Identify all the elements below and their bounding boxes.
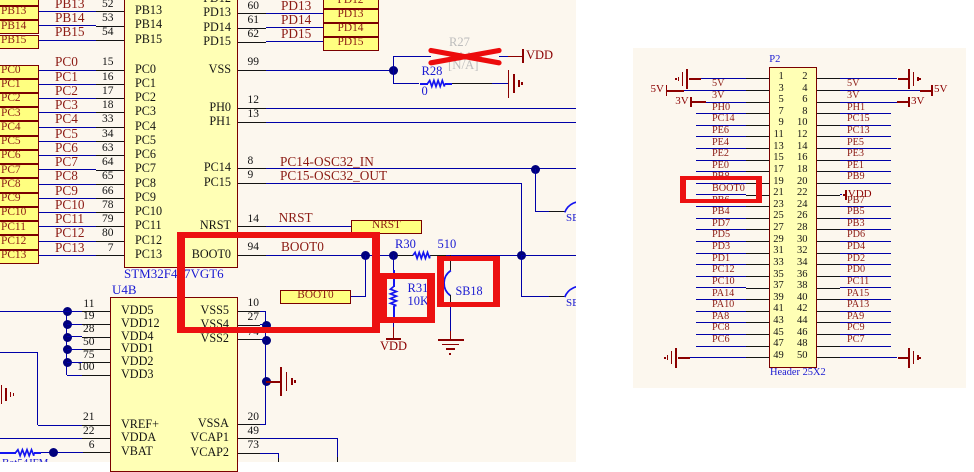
pin stub PH0 — [238, 108, 266, 109]
pin stub PD14 — [238, 28, 266, 29]
P2 pin numbers 19 20 — [664, 177, 784, 188]
U4B pin VDD12 (19) — [121, 317, 160, 329]
wire PH0 — [266, 108, 577, 109]
P2 left wire row 35 — [696, 276, 747, 277]
net label PE4 — [712, 138, 729, 148]
P2 5V left wire — [684, 90, 746, 91]
solder bridge SB17 arc (clipped) — [0, 0, 576, 462]
wire VDDA feed — [0, 438, 82, 439]
net label NRST — [279, 211, 313, 224]
P2 pin 24 stub — [817, 206, 840, 207]
P2 right wire row 48 — [840, 346, 891, 347]
net label PC8 — [712, 323, 730, 333]
P2 pin numbers 13 14 — [664, 142, 784, 153]
P2 pin numbers 33 34 — [664, 258, 784, 269]
port NRST — [351, 220, 423, 234]
net label PD15 — [281, 27, 311, 40]
red highlight box BOOT0 (header) — [680, 176, 762, 203]
net label BOOT0 — [281, 240, 324, 253]
P2 5V right wire — [840, 90, 920, 91]
wire PD15 — [266, 41, 323, 42]
P2 pin 46 stub — [817, 334, 840, 335]
P2 pin 20 stub — [817, 183, 840, 184]
P2 pin 43 stub — [746, 322, 769, 323]
ground GND below SB18 — [438, 339, 465, 341]
pin stub PD15 — [238, 42, 266, 43]
P2 pin 21 stub — [746, 195, 769, 196]
port PC6 — [0, 150, 39, 164]
P2 right wire row 14 — [840, 148, 891, 149]
P2 left wire row 29 — [696, 241, 747, 242]
P2 pin 17 stub — [746, 171, 769, 172]
pin PC7 (64) left wire+label — [39, 169, 97, 170]
net label PC14-OSC32_IN — [280, 155, 374, 168]
power earth left top — [686, 69, 688, 89]
IC right pin name PD14 — [111, 21, 231, 33]
port PC13 — [0, 250, 39, 264]
pin stub PH1 — [238, 122, 266, 123]
net label PA9 — [847, 312, 864, 322]
pin PB15 (54) left wire+label — [39, 40, 97, 41]
wire to SB17 — [522, 296, 549, 297]
P2 pin 39 stub — [746, 299, 769, 300]
P2 pin 15 stub — [746, 160, 769, 161]
P2 pin 34 stub — [817, 264, 840, 265]
port PD14 — [323, 23, 380, 37]
IC right pin name BOOT0 — [111, 248, 231, 260]
port PC12 — [0, 235, 39, 249]
junction VDD bus — [63, 345, 72, 354]
net label PD7 — [712, 219, 730, 229]
VSS net corner/vertical — [260, 311, 266, 312]
port PC1 — [0, 79, 39, 93]
resistor R28 leads — [420, 83, 428, 85]
P2 pin 10 stub — [817, 125, 840, 126]
P2 right wire row 36 — [840, 276, 891, 277]
P2 pin 27 stub — [746, 229, 769, 230]
port PD12 — [323, 0, 380, 9]
P2 pin 40 stub — [817, 299, 840, 300]
SB17 label (clipped) — [566, 298, 576, 308]
wire PD14 — [266, 27, 323, 28]
P2 right wire row 28 — [840, 229, 891, 230]
P2 pin numbers 35 36 — [664, 270, 784, 281]
net label 5V left — [712, 79, 724, 89]
IC right pin name PH0 — [111, 101, 231, 113]
port BOOT0 — [280, 290, 351, 304]
power earth left bottom — [675, 348, 677, 368]
P2 comment Header 25X2 — [770, 368, 826, 378]
IC right pin name PC14 — [111, 161, 231, 173]
net label PA10 — [712, 300, 734, 310]
net label BOOT0 — [712, 184, 745, 194]
P2 3V right wire — [840, 102, 897, 103]
P2 pin 1 stub — [746, 78, 769, 79]
P2 right wire row 24 — [840, 206, 891, 207]
wire R27 to VDD — [499, 56, 508, 57]
P2 left wire row 25 — [696, 218, 747, 219]
pin PC0 (15) left wire+label — [39, 70, 97, 71]
P2 right wire row 12 — [840, 136, 891, 137]
P2 pin numbers 17 18 — [664, 165, 784, 176]
power earth symbol at left edge — [1, 385, 3, 404]
R31 designator — [408, 282, 429, 295]
P2 VDD wire — [840, 194, 843, 195]
P2 3V left wire — [706, 102, 746, 103]
pin PC8 (65) left wire+label — [39, 184, 97, 185]
P2 pin 13 stub — [746, 148, 769, 149]
power earth right top — [908, 69, 910, 89]
pin PC5 (34) left wire+label — [39, 141, 97, 142]
net label PB9 — [847, 172, 865, 182]
P2 pin 44 stub — [817, 322, 840, 323]
SB16 label (clipped) — [566, 213, 576, 223]
wire BOOT0 to sheet edge — [522, 255, 576, 256]
power port VDD right — [845, 190, 847, 200]
SB18 label — [456, 285, 483, 297]
P2 right wire row 18 — [840, 171, 891, 172]
wire down from PC14 junction — [535, 169, 536, 212]
P2 pin 4 stub — [817, 90, 840, 91]
wire VCAP2 — [260, 453, 279, 454]
pin number 94 — [248, 242, 260, 254]
red highlight box BOOT0 area — [177, 232, 380, 333]
net label PD2 — [847, 254, 865, 264]
P2 pin 32 stub — [817, 253, 840, 254]
header screenshot sheet background — [633, 48, 966, 388]
P2 pin1 wire to earth — [701, 78, 746, 79]
net label PC15-OSC32_OUT — [280, 169, 387, 182]
net label PD6 — [847, 230, 865, 240]
wire PH1 — [266, 122, 577, 123]
net label PB4 — [712, 207, 730, 217]
junction BOOT0/port — [361, 251, 370, 260]
port PC4 — [0, 121, 39, 135]
resistor R31 bottom lead — [393, 306, 395, 318]
pin PC4 (33) left wire+label — [39, 127, 97, 128]
P2 right wire row 20 — [840, 183, 891, 184]
wire VDD bus stub — [67, 324, 82, 325]
net label PC9 — [847, 323, 865, 333]
power port VDD (top) — [522, 49, 524, 63]
net label 3V right — [847, 91, 859, 101]
P2 pin 12 stub — [817, 136, 840, 137]
pin number 13 — [248, 109, 260, 121]
net label PE5 — [847, 138, 864, 148]
pin stub BOOT0 — [238, 255, 266, 256]
junction BOOT0/SB17 — [517, 251, 526, 260]
clipped designator text bottom left — [2, 458, 49, 463]
power port 3V left — [690, 97, 692, 107]
P2 pin numbers 45 46 — [664, 328, 784, 339]
wire PC14-OSC32_IN — [266, 168, 577, 169]
P2 pin numbers 15 16 — [664, 153, 784, 164]
P2 left wire row 11 — [696, 136, 747, 137]
ground symbol for VSS — [266, 381, 280, 383]
port PB13 — [0, 6, 39, 20]
P2 left wire row 19 — [696, 183, 747, 184]
P2 right wire row 42 — [840, 311, 891, 312]
pin number 14 — [248, 214, 260, 226]
P2 right wire row 44 — [840, 322, 891, 323]
U4B pin VDDA (22) — [121, 431, 156, 443]
port PC9 — [0, 193, 39, 207]
P2 left wire row 41 — [696, 311, 747, 312]
P2 pin 3 stub — [746, 90, 769, 91]
net label PA15 — [847, 289, 869, 299]
IC right pin name NRST — [111, 219, 231, 231]
P2 pin 2 stub — [817, 78, 840, 79]
P2 left wire row 13 — [696, 148, 747, 149]
net label PC12 — [712, 265, 735, 275]
P2 left wire row 31 — [696, 253, 747, 254]
junction VSS/R27/R28 — [389, 66, 398, 75]
net label PC15 — [847, 114, 870, 124]
pin PC6 (63) left wire+label — [39, 155, 97, 156]
U4B pin VDD1 (50) — [121, 342, 154, 354]
P2 left wire row 15 — [696, 160, 747, 161]
net label PB7 — [847, 196, 865, 206]
P2 pin 6 stub — [817, 102, 840, 103]
P2 left wire row 17 — [696, 171, 747, 172]
R28 designator — [422, 65, 443, 78]
pin PC12 (80) left wire+label — [39, 241, 97, 242]
P2 pin50 wire to earth — [840, 357, 898, 358]
P2 pin 9 stub — [746, 125, 769, 126]
P2 right wire row 10 — [840, 125, 891, 126]
net label PD13 — [281, 0, 311, 12]
port PC2 — [0, 93, 39, 107]
wire VDD bus stub — [67, 349, 82, 350]
P2 pin 50 stub — [817, 357, 840, 358]
power port VDD below R31 — [386, 338, 402, 340]
pin PB12 (cut) left wire+label — [135, 0, 162, 2]
pin number 9 — [248, 170, 254, 182]
port PC11 — [0, 221, 39, 235]
pin stub NRST — [238, 226, 266, 227]
power port 3V right — [908, 97, 910, 107]
P2 pin 45 stub — [746, 334, 769, 335]
net label PD5 — [712, 230, 730, 240]
U4B pin VCAP1 (49) — [109, 431, 229, 443]
P2 pin 5 stub — [746, 102, 769, 103]
IC U4A STM32F407VGT6 body — [124, 0, 238, 268]
P2 left wire row 23 — [696, 206, 747, 207]
power port 5V left — [666, 85, 668, 95]
P2 pin numbers 5 6 — [664, 95, 784, 106]
port PB12 — [0, 0, 39, 6]
net label PE0 — [712, 161, 729, 171]
IC right pin name VSS — [111, 63, 231, 75]
net label PB3 — [847, 219, 865, 229]
net label PB5 — [847, 207, 865, 217]
resistor R30 leads — [397, 255, 413, 256]
P2 right wire row 30 — [840, 241, 891, 242]
SB18 bottom stub — [450, 295, 451, 307]
power port 5V right — [931, 85, 933, 95]
wire R28 right segment — [452, 83, 492, 84]
port PD15 — [323, 37, 380, 51]
wire VBAT with series resistor — [0, 452, 16, 454]
net label PC14 — [712, 114, 735, 124]
net label PE2 — [712, 149, 729, 159]
junction VSS2 — [262, 336, 271, 345]
P2 pin 36 stub — [817, 276, 840, 277]
pin number 8 — [248, 156, 254, 168]
wire VREF+ feed — [0, 352, 38, 353]
net label PC7 — [847, 335, 865, 345]
wire VCAP1 — [260, 438, 338, 439]
P2 pin 49 stub — [746, 357, 769, 358]
P2 pin 41 stub — [746, 311, 769, 312]
R30 designator — [395, 238, 416, 251]
P2 pin 25 stub — [746, 218, 769, 219]
P2 pin numbers 11 12 — [664, 130, 784, 141]
net label PD0 — [847, 265, 865, 275]
P2 pin 7 stub — [746, 113, 769, 114]
net label PC11 — [847, 277, 869, 287]
P2 left wire row 33 — [696, 264, 747, 265]
P2 pin numbers 27 28 — [664, 223, 784, 234]
P2 pin 26 stub — [817, 218, 840, 219]
pin number 99 — [248, 57, 260, 69]
wire up to R27 branch — [393, 56, 394, 70]
net label PH1 — [847, 103, 865, 113]
net label PH0 — [712, 103, 730, 113]
pin PC2 (17) left wire+label — [39, 98, 97, 99]
U4B designator — [112, 283, 137, 296]
net label PD4 — [847, 242, 865, 252]
junction PC14/SB16 — [531, 165, 540, 174]
junction VDD bus — [63, 307, 72, 316]
red highlight box SB18 — [437, 256, 500, 308]
P2 left wire row 21 — [696, 194, 747, 195]
U4B pin VDD2 (75) — [121, 355, 154, 367]
P2 pin 48 stub — [817, 346, 840, 347]
net label PB8 — [712, 172, 730, 182]
pin PC11 (79) left wire+label — [39, 226, 97, 227]
P2 pin 19 stub — [746, 183, 769, 184]
P2 right wire row 40 — [840, 299, 891, 300]
port PD13 — [323, 9, 380, 23]
wire down to SB17 — [521, 255, 522, 296]
pin stub PC14 — [238, 168, 266, 169]
U4B pin VREF+ (21) — [121, 418, 159, 430]
IC U4B body — [110, 297, 238, 472]
wire VSS pin99 — [266, 70, 394, 71]
pin PC3 (18) left wire+label — [39, 112, 97, 113]
U4B pin VDD5 (11) — [121, 304, 154, 316]
P2 pin 14 stub — [817, 148, 840, 149]
P2 pin 29 stub — [746, 241, 769, 242]
net label 5V right — [847, 79, 859, 89]
pin PB13 (52) left wire+label — [39, 11, 97, 12]
P2 right wire row 32 — [840, 253, 891, 254]
pin number 12 — [248, 95, 260, 107]
wire PC15-OSC32_OUT — [266, 183, 522, 184]
P2 designator — [769, 55, 780, 66]
P2 right wire row 38 — [840, 287, 891, 288]
P2 pin 33 stub — [746, 264, 769, 265]
junction VSS ground tap — [262, 377, 271, 386]
junction BOOT0/R31 — [389, 251, 398, 260]
P2 right wire row 34 — [840, 264, 891, 265]
P2 left wire row 47 — [696, 346, 747, 347]
net label PE1 — [847, 161, 864, 171]
net label PD14 — [281, 13, 311, 26]
wire VDD bus stub — [67, 362, 82, 363]
wire down to R28 — [393, 70, 394, 83]
IC right pin name PD15 — [111, 35, 231, 47]
P2 pin 23 stub — [746, 206, 769, 207]
pin PC13 (7) left wire+label — [39, 255, 97, 256]
P2 right wire row 16 — [840, 160, 891, 161]
P2 pin numbers 29 30 — [664, 235, 784, 246]
P2 pin numbers 37 38 — [664, 281, 784, 292]
pin number 60 — [248, 1, 260, 13]
P2 pin 28 stub — [817, 229, 840, 230]
net label PC6 — [712, 335, 730, 345]
P2 right wire row 46 — [840, 334, 891, 335]
P2 pin 37 stub — [746, 288, 769, 289]
port PC0 — [0, 65, 39, 79]
P2 pin 18 stub — [817, 171, 840, 172]
port PC3 — [0, 107, 39, 121]
net label PE3 — [847, 149, 864, 159]
U4B pin VSS4 (27) — [109, 318, 229, 330]
wire VDD bus stub — [67, 311, 82, 312]
P2 pin numbers 41 42 — [664, 304, 784, 315]
P2 pin numbers 21 22 — [664, 188, 784, 199]
wire BOOT0 pin94 — [266, 255, 398, 256]
P2 pin 11 stub — [746, 136, 769, 137]
wire PC15 down to BOOT0 row — [521, 183, 522, 255]
P2 left wire row 45 — [696, 334, 747, 335]
pin PC1 (16) left wire+label — [39, 84, 97, 85]
P2 left wire row 43 — [696, 322, 747, 323]
P2 pin49 wire to earth — [690, 357, 746, 358]
P2 pin 31 stub — [746, 253, 769, 254]
power ground symbol right of R28 — [508, 70, 510, 98]
IC right pin name PD13 — [111, 6, 231, 18]
U4B pin VSS2 (74) — [109, 332, 229, 344]
IC right pin name PC15 — [111, 176, 231, 188]
main schematic sheet background — [0, 0, 576, 462]
wire R30 to junction — [446, 255, 522, 256]
solder bridge SB16 arc (clipped) — [0, 0, 576, 462]
port PB15 — [0, 35, 39, 49]
P2 pin 30 stub — [817, 241, 840, 242]
wire R28 left segment — [393, 83, 419, 84]
P2 pin numbers 9 10 — [664, 118, 784, 129]
net label PD1 — [712, 254, 730, 264]
wire to SB16 — [536, 211, 549, 212]
P2 pin 42 stub — [817, 311, 840, 312]
P2 pin 22 stub — [817, 195, 840, 196]
P2 left wire row 9 — [696, 125, 747, 126]
U4B pin VCAP2 (73) — [109, 446, 229, 458]
pin PC10 (78) left wire+label — [39, 212, 97, 213]
wire VDD feed from left — [0, 311, 67, 312]
P2 pin numbers 49 50 — [664, 351, 784, 362]
P2 pin numbers 25 26 — [664, 211, 784, 222]
P2 pin2 wire to earth — [840, 78, 898, 79]
wire R27 branch left segment — [393, 56, 431, 57]
net label PC13 — [847, 126, 870, 136]
P2 left wire row 27 — [696, 229, 747, 230]
P2 pin numbers 3 4 — [664, 84, 784, 95]
net label PA13 — [847, 300, 869, 310]
